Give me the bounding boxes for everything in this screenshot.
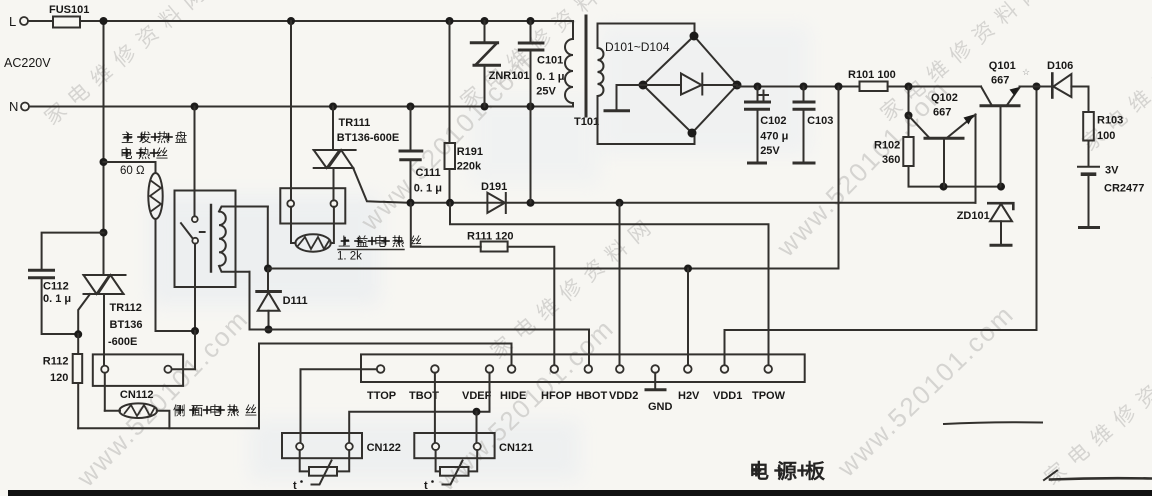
svg-text:TR111: TR111	[339, 117, 371, 129]
transistor Q102	[909, 92, 976, 187]
thermistor t2	[424, 450, 477, 492]
zener ZD101	[957, 203, 1014, 245]
wire bottom-left rail	[78, 427, 259, 429]
svg-text:D106: D106	[1047, 60, 1073, 72]
watermark band left-bottom	[70, 304, 254, 493]
svg-text:220k: 220k	[457, 161, 482, 173]
svg-text:C103: C103	[807, 115, 833, 127]
terminal strip box	[361, 354, 805, 382]
wire rail y330 to HBOT	[250, 326, 590, 366]
wire heater60 top link	[100, 158, 156, 173]
svg-text:HIDE: HIDE	[500, 390, 526, 402]
svg-text:CN122: CN122	[367, 442, 401, 454]
relay K1 box	[175, 191, 236, 288]
wire N rail	[29, 106, 573, 108]
wire TR112 drop to CN112	[103, 294, 105, 365]
wire connector drop from L (x291)	[290, 21, 292, 200]
capacitor C112	[30, 229, 108, 334]
svg-text:FUS101: FUS101	[49, 4, 89, 16]
label TR112 BT136 -600E	[108, 302, 143, 348]
node L-rail junctions	[100, 17, 535, 25]
ground (bridge left)	[605, 85, 643, 111]
watermark band top-left	[40, 0, 216, 130]
svg-text:25V: 25V	[536, 86, 556, 98]
svg-text:ZD101: ZD101	[957, 210, 990, 222]
watermark band center-bottom	[431, 313, 620, 496]
wire N drop to gate line	[530, 107, 532, 203]
terminal circles	[377, 365, 772, 373]
diode D106	[1037, 60, 1089, 98]
battery 3V CR2477	[1078, 165, 1144, 228]
svg-text:电热丝: 电热丝	[120, 147, 174, 161]
ground GND under strip	[646, 373, 673, 413]
svg-text:667: 667	[991, 75, 1009, 87]
svg-text:0. 1 μ: 0. 1 μ	[414, 183, 442, 195]
diode D111	[257, 269, 308, 330]
heater element 60ohm (main hotplate)	[148, 173, 162, 219]
wire VDEF branch	[349, 373, 489, 443]
connector box CN111 (TR111 load)	[280, 188, 345, 223]
fuse FUS101	[49, 4, 89, 28]
terminal N	[9, 99, 29, 114]
transformer T101 primary	[565, 39, 573, 103]
svg-text:C101: C101	[537, 55, 563, 67]
terminal labels	[367, 390, 786, 402]
svg-text:ZNR101: ZNR101	[489, 70, 530, 82]
svg-text:TR112: TR112	[110, 302, 142, 314]
terminal L	[9, 14, 28, 29]
svg-text:BT136-600E: BT136-600E	[337, 132, 399, 144]
wire heater60 bottom	[156, 219, 196, 331]
svg-text:D101~D104: D101~D104	[605, 40, 670, 54]
gate wire TR111	[353, 168, 410, 203]
resistor R102	[874, 87, 1001, 187]
scan tint washes	[150, 25, 810, 480]
resistor R103	[1083, 87, 1123, 167]
svg-text:R112: R112	[43, 356, 69, 368]
bridge rectifier D101~D104	[605, 32, 742, 138]
wire primary bottom	[572, 103, 574, 107]
svg-text:VDD1: VDD1	[713, 390, 742, 402]
triac TR111	[314, 150, 356, 168]
watermark band bottom-right-corner	[1040, 337, 1152, 490]
svg-text:R102: R102	[874, 140, 900, 152]
wire switch bottom drop	[172, 244, 199, 370]
svg-text:470 μ: 470 μ	[760, 131, 788, 143]
relay coil	[211, 205, 268, 272]
svg-text:C111: C111	[416, 167, 441, 179]
wire coil top riser to rail268	[267, 207, 269, 269]
svg-text:H2V: H2V	[678, 390, 700, 402]
connector CN122	[282, 433, 401, 458]
svg-text:T101: T101	[574, 116, 599, 128]
transistor Q101	[981, 60, 1037, 187]
watermark band top-right	[876, 0, 1052, 126]
svg-text:N: N	[9, 99, 18, 114]
thermistor t1	[293, 450, 349, 492]
wire VDD2 drop	[619, 203, 621, 365]
svg-text:R191: R191	[457, 146, 483, 158]
svg-text:Q102: Q102	[931, 92, 958, 104]
svg-text:C102: C102	[760, 115, 786, 127]
label 主发热盘 电热丝 60Ω	[120, 130, 193, 177]
svg-text:120: 120	[50, 372, 68, 384]
wire TR111 bottom to box	[333, 168, 335, 200]
svg-text:D191: D191	[481, 181, 507, 193]
wire box left circle to heater	[291, 207, 296, 243]
svg-text:VDEF: VDEF	[462, 390, 492, 402]
node rail186 junctions	[940, 183, 1006, 191]
resistor R112	[43, 330, 82, 428]
svg-text:Q101: Q101	[989, 60, 1016, 72]
svg-text:☆: ☆	[1022, 67, 1030, 77]
capacitor C102 electrolytic	[746, 87, 789, 164]
svg-text:1. 2k: 1. 2k	[337, 251, 362, 263]
wire TPOW branch	[450, 203, 769, 365]
hand line 2	[1044, 471, 1152, 481]
svg-text:360: 360	[882, 154, 900, 166]
capacitor C103	[794, 87, 833, 164]
connector CN112	[93, 354, 183, 401]
svg-text:VDD2: VDD2	[609, 390, 638, 402]
watermark band mid-upper	[354, 48, 538, 237]
varistor ZNR101	[471, 21, 529, 107]
wire box right circle to heater	[331, 207, 334, 243]
transformer T101 core	[585, 16, 588, 116]
svg-text:60 Ω: 60 Ω	[120, 165, 145, 177]
node N-rail junctions	[191, 103, 535, 111]
svg-text:R101 100: R101 100	[848, 69, 896, 81]
svg-text:3V: 3V	[1105, 165, 1119, 177]
svg-text:HFOP: HFOP	[541, 390, 572, 402]
wire HIDE riser and line	[259, 344, 512, 429]
svg-text:L: L	[9, 14, 16, 29]
wire DC rail y86	[737, 83, 1041, 91]
label 上益电热丝 1.2k	[337, 235, 428, 263]
hand line 1	[944, 422, 1042, 424]
svg-text:C112: C112	[43, 281, 69, 293]
wire N to TR111 top	[332, 107, 334, 151]
svg-text:CR2477: CR2477	[1104, 183, 1144, 195]
diode D191	[481, 181, 507, 213]
triac TR112	[78, 275, 125, 334]
svg-text:100: 100	[1097, 130, 1115, 142]
watermark band bottom-right-mid	[831, 299, 1020, 483]
transformer T101 secondary	[598, 24, 695, 145]
svg-text:0. 1 μ: 0. 1 μ	[43, 293, 71, 305]
svg-text:AC220V: AC220V	[4, 56, 51, 70]
svg-text:侧面电热丝: 侧面电热丝	[173, 404, 263, 418]
wire left vertical from L	[103, 21, 105, 275]
connector CN121	[414, 433, 533, 458]
svg-text:HBOT: HBOT	[576, 390, 607, 402]
svg-text:TPOW: TPOW	[752, 390, 786, 402]
wire TTOP to CN122	[301, 369, 377, 442]
wire L rail	[28, 20, 53, 22]
wire Q102 emitter riser	[975, 115, 977, 203]
relay switch contact	[181, 107, 205, 244]
wire riser x838 to rail268	[838, 87, 840, 269]
svg-text:D111: D111	[283, 295, 308, 307]
resistor R111	[411, 203, 555, 365]
wire VDD1 loop	[725, 87, 1037, 366]
svg-text:-600E: -600E	[108, 336, 137, 348]
capacitor C101	[519, 21, 564, 107]
svg-text:TTOP: TTOP	[367, 390, 396, 402]
heater element side (CN112)	[105, 373, 170, 429]
svg-text:R103: R103	[1097, 115, 1123, 127]
capacitor C111	[400, 107, 442, 203]
svg-text:CN112: CN112	[120, 389, 154, 401]
wire rail y268	[264, 265, 839, 273]
label TR111 BT136-600E	[337, 117, 399, 144]
svg-text:CN121: CN121	[499, 442, 533, 454]
wire gate line y203	[407, 199, 976, 207]
resistor R191	[445, 21, 483, 203]
resistor R101	[848, 69, 896, 91]
watermark band center	[486, 211, 662, 364]
svg-text:25V: 25V	[760, 145, 780, 157]
svg-text:0. 1 μ: 0. 1 μ	[536, 71, 564, 83]
svg-text:667: 667	[933, 107, 951, 119]
watermark band right-upper	[770, 74, 954, 263]
bottom black bar	[8, 490, 1152, 496]
watermark band right-edge	[1078, 3, 1152, 156]
wire TBOT to CN121	[434, 373, 436, 443]
svg-text:BT136: BT136	[110, 319, 143, 331]
svg-text:GND: GND	[648, 401, 673, 413]
svg-text:R111 120: R111 120	[467, 231, 514, 243]
svg-text:电源板: 电源板	[749, 459, 833, 483]
wire H2V drop	[687, 269, 689, 366]
heater element upper 1.2k	[295, 234, 330, 251]
wire coil bottom riser	[249, 272, 251, 330]
watermark band mid-top	[456, 0, 632, 114]
